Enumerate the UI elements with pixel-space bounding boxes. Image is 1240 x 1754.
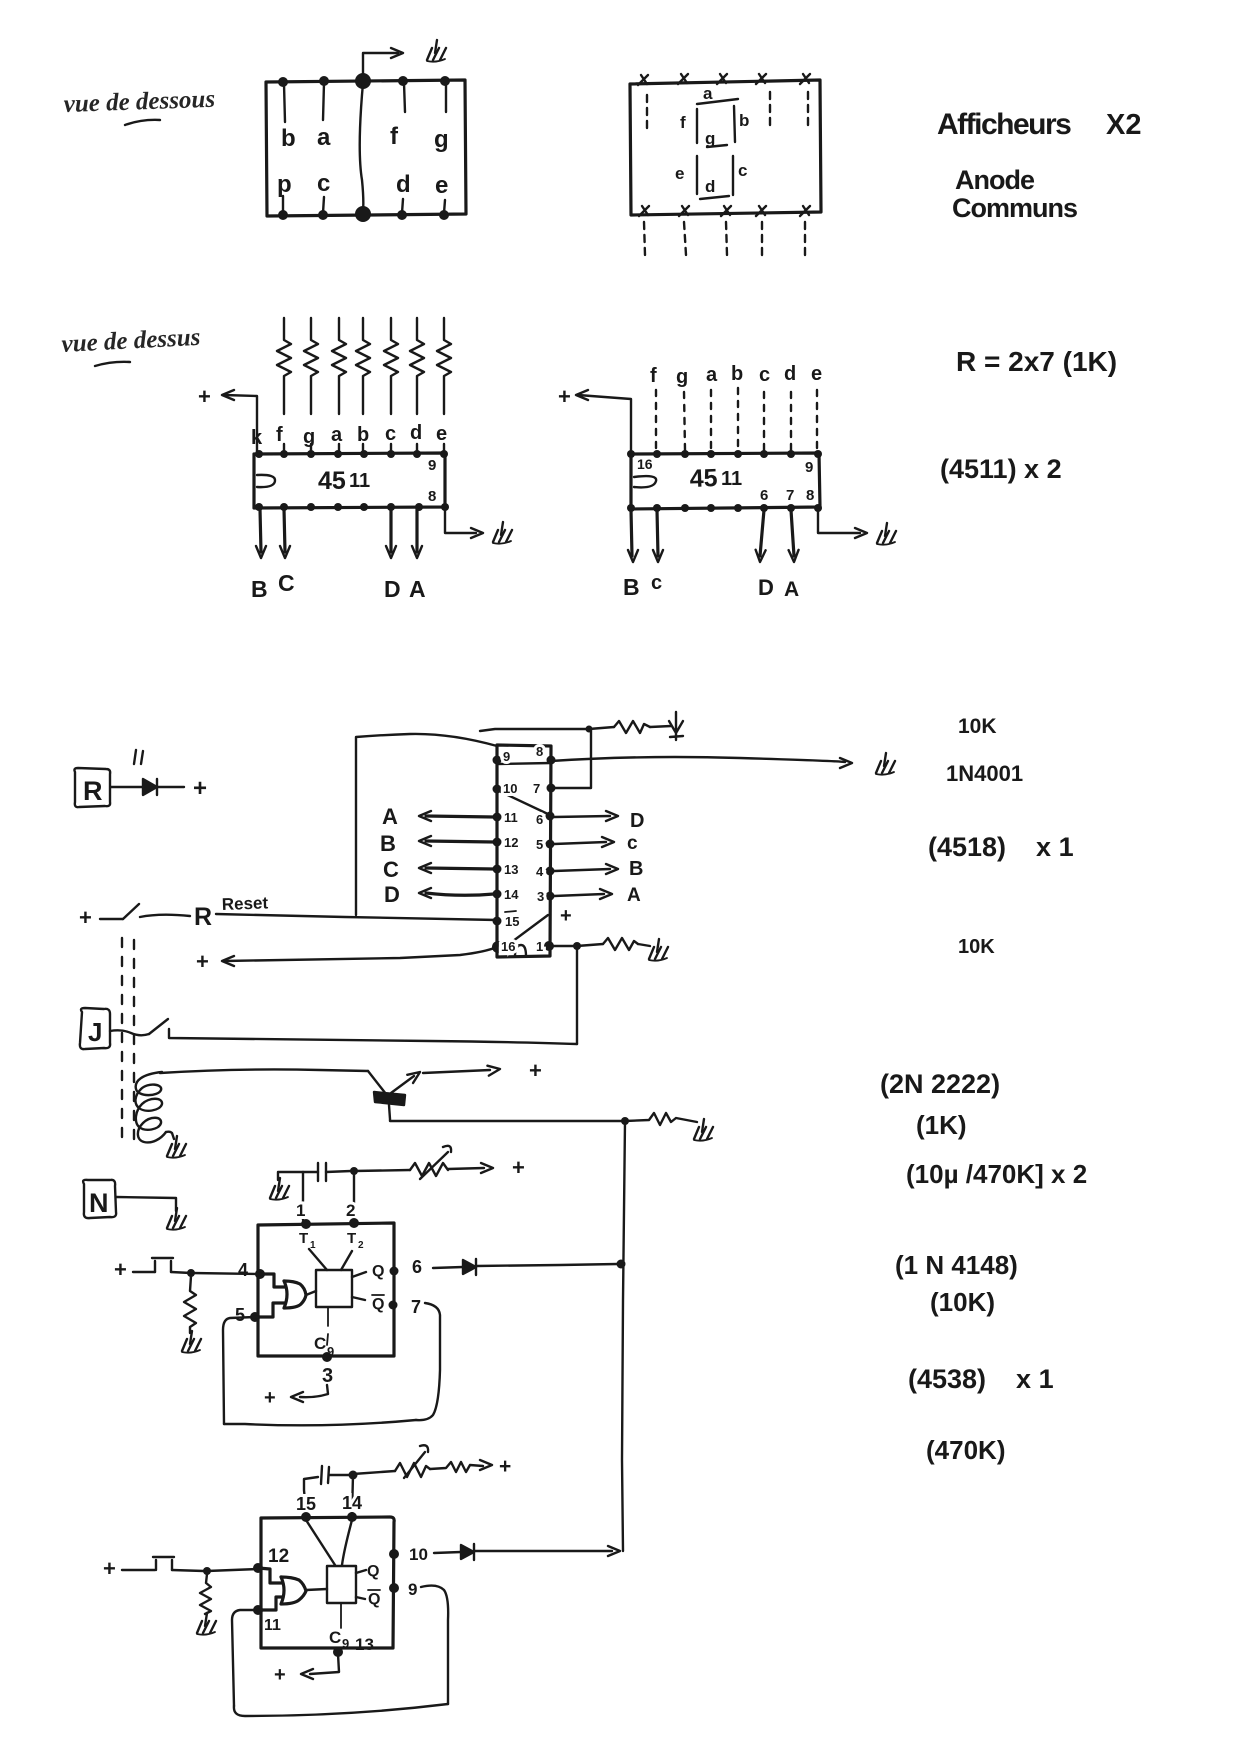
output D arrow <box>389 509 392 552</box>
svg-text:9: 9 <box>503 749 510 764</box>
svg-text:(470K): (470K) <box>926 1435 1005 1465</box>
wire cap to junction <box>329 1474 350 1476</box>
reset wire to switch <box>100 918 123 920</box>
svg-text:+: + <box>558 384 571 409</box>
ground wire of 4511 #2 <box>818 510 860 533</box>
svg-text:N: N <box>89 1188 109 1218</box>
pin g top <box>440 76 450 86</box>
top pin dots <box>255 450 263 458</box>
underline <box>95 362 130 366</box>
svg-text:+: + <box>198 384 211 409</box>
notch <box>634 476 656 487</box>
resistor R c <box>384 318 398 414</box>
svg-text:+: + <box>114 1257 127 1282</box>
svg-text:B: B <box>380 831 396 856</box>
top supply wire to resistor <box>480 729 586 731</box>
loop left side b <box>232 1610 255 1706</box>
notch <box>257 475 275 487</box>
svg-text:a: a <box>331 424 343 446</box>
wire diode to vertical end <box>474 1550 612 1552</box>
inner line below pins 9/8 <box>497 763 551 764</box>
OR gate b <box>281 1577 306 1604</box>
junction <box>586 726 593 733</box>
svg-text:C: C <box>383 857 399 882</box>
pin 9 loop wire <box>421 1586 448 1704</box>
svg-text:2: 2 <box>346 1201 355 1220</box>
svg-text:C: C <box>329 1628 341 1647</box>
T2 lead <box>341 1251 352 1270</box>
capacitor C2 plates <box>321 1466 329 1484</box>
dashed leads below <box>644 222 645 255</box>
pin 12 dot <box>253 1563 263 1573</box>
pin 15 dot <box>301 1512 311 1522</box>
J wire squiggle <box>110 1030 149 1035</box>
internal divider diagonal <box>497 790 550 815</box>
svg-text:15: 15 <box>505 914 519 929</box>
ground (masse) <box>182 1331 201 1353</box>
pin 12 wiring to gate <box>258 1568 282 1583</box>
svg-text:e: e <box>811 363 822 385</box>
svg-text:12: 12 <box>504 835 518 850</box>
J switch arm <box>149 1019 168 1034</box>
svg-text:8: 8 <box>428 488 436 505</box>
dashed linkage lines <box>121 938 123 1139</box>
pin c bottom <box>318 210 328 220</box>
Qbar lead <box>352 1297 365 1300</box>
wire to ground <box>638 944 650 946</box>
svg-text:f: f <box>390 123 399 150</box>
pin 4 dot <box>255 1269 265 1279</box>
svg-text:+: + <box>529 1058 542 1083</box>
pin 11 wiring to gate <box>258 1597 282 1610</box>
pushbutton N.O. <box>152 1258 173 1272</box>
wire to + <box>448 1168 484 1169</box>
svg-text:D: D <box>384 882 400 907</box>
ground (masse) <box>694 1119 713 1141</box>
svg-text:d: d <box>705 177 715 196</box>
display body (vue de dessous) <box>266 80 466 216</box>
svg-text:7: 7 <box>533 781 540 796</box>
wire junction to variable resistor <box>353 1471 395 1474</box>
svg-text:C: C <box>278 570 295 596</box>
cap ground stub <box>278 1172 318 1180</box>
svg-text:c: c <box>385 423 396 445</box>
junction on vertical <box>617 1260 626 1269</box>
wire cap to junction <box>326 1171 351 1172</box>
svg-text:+: + <box>193 775 207 802</box>
junction pin2 top <box>350 1167 358 1175</box>
svg-text:Q: Q <box>367 1563 379 1580</box>
svg-text:(10µ /470K] x 2: (10µ /470K] x 2 <box>906 1159 1087 1189</box>
svg-text:d: d <box>396 171 411 198</box>
pin 4 wiring to gate <box>260 1274 285 1287</box>
ground (masse) N <box>167 1208 186 1230</box>
ground (masse) coil <box>167 1136 186 1158</box>
resistor R e <box>437 318 451 414</box>
T lead 14 <box>342 1520 352 1565</box>
svg-text:10: 10 <box>503 781 517 796</box>
resistor 10K bottom <box>603 938 638 950</box>
variable resistor 470K #1 <box>410 1163 448 1176</box>
common node top <box>355 73 371 89</box>
loop bottom b <box>234 1704 448 1716</box>
wire + to button <box>133 1271 155 1273</box>
wire coil to transistor base <box>160 1069 368 1073</box>
pin 3 wire to + <box>300 1385 328 1397</box>
capacitor C1 plates <box>318 1163 326 1181</box>
bottom pin dots <box>627 504 635 512</box>
pin 7 wire up to supply <box>551 731 591 788</box>
ground (masse) <box>876 753 895 775</box>
pin 3 dot <box>322 1352 332 1362</box>
C pin stub below square <box>340 1604 342 1628</box>
pin d bottom <box>397 210 407 220</box>
svg-text:5: 5 <box>536 837 543 852</box>
svg-text:b: b <box>731 363 743 385</box>
emitter arrow to + <box>391 1076 414 1093</box>
svg-text:Q: Q <box>372 1263 384 1280</box>
pushbutton N.O. b <box>153 1557 174 1570</box>
svg-text:b: b <box>357 424 369 446</box>
right pin dots 8..1 <box>547 756 556 765</box>
svg-text:Q: Q <box>372 1296 384 1313</box>
svg-text:3: 3 <box>322 1365 333 1387</box>
pulldown resistor 10K <box>184 1276 196 1333</box>
svg-text:11: 11 <box>721 468 742 490</box>
svg-text:14: 14 <box>342 1493 362 1513</box>
output C arrow <box>657 510 658 556</box>
wire common to ground arrow <box>363 53 398 79</box>
output A arrow left <box>426 816 494 817</box>
svg-text:+: + <box>79 905 92 930</box>
output C arrow <box>284 509 285 552</box>
svg-text:16: 16 <box>637 456 653 472</box>
svg-text:+: + <box>512 1155 525 1180</box>
svg-text:6: 6 <box>536 812 543 827</box>
svg-text:2: 2 <box>358 1240 364 1251</box>
pin 10 dot <box>389 1549 399 1559</box>
adjustment arrow <box>404 1445 428 1478</box>
wire <box>589 727 614 729</box>
svg-text:b: b <box>739 111 749 130</box>
ground (masse) b <box>197 1613 216 1635</box>
mono block square <box>327 1566 356 1603</box>
underline <box>125 120 160 125</box>
pin e bottom <box>439 210 449 220</box>
svg-text:c: c <box>317 170 330 197</box>
pin 5 wiring to gate <box>255 1303 285 1317</box>
svg-text:d: d <box>410 422 422 444</box>
lead to pin 14 <box>352 1475 353 1514</box>
svg-text:C: C <box>314 1334 326 1353</box>
svg-text:10K: 10K <box>958 715 997 738</box>
wire pin1 junction down to J line <box>576 946 578 1044</box>
svg-text:7: 7 <box>411 1297 421 1317</box>
wire + to button b <box>122 1569 155 1571</box>
left pin dots 9..15 <box>493 756 502 765</box>
ground (masse) <box>877 523 896 545</box>
ground (masse) top <box>427 40 446 62</box>
loop bottom <box>224 1420 416 1425</box>
svg-text:g: g <box>434 126 449 153</box>
pin X marks bottom <box>639 206 649 216</box>
output B arrow left <box>426 841 494 842</box>
svg-text:e: e <box>435 172 448 199</box>
N button box <box>83 1180 116 1218</box>
output c arrow right <box>554 842 606 844</box>
long vertical wire <box>622 1121 625 1551</box>
Q lead <box>352 1272 366 1277</box>
diode D1 <box>143 779 157 795</box>
svg-text:+: + <box>560 905 572 927</box>
svg-text:f: f <box>680 113 686 132</box>
+ arrow from pin 16 <box>222 956 234 966</box>
bottom diagonal and notch <box>497 915 548 953</box>
cap left bracket <box>304 1477 318 1514</box>
svg-text:Q: Q <box>368 1591 380 1608</box>
junction pin1 <box>573 942 581 950</box>
svg-text:9: 9 <box>342 1636 349 1651</box>
IC 4511 #2 body <box>631 453 820 509</box>
output B arrow right <box>554 869 610 871</box>
output C arrow left <box>426 868 494 869</box>
svg-text:Anode: Anode <box>955 165 1035 195</box>
IC 4518 body <box>497 745 551 957</box>
pin stubs into chip <box>284 444 444 452</box>
resistor R a <box>332 318 346 414</box>
svg-text:B: B <box>623 574 640 600</box>
N wire <box>116 1197 176 1211</box>
wire to variable resistor <box>354 1170 410 1171</box>
svg-text:8: 8 <box>806 487 814 504</box>
wire button to junction <box>171 1272 191 1273</box>
bottom pin dots <box>255 503 263 511</box>
svg-text:9: 9 <box>408 1580 417 1599</box>
reset wire to pin 15 <box>216 914 497 920</box>
svg-text:c: c <box>759 364 770 386</box>
svg-text:c: c <box>738 161 747 180</box>
svg-text:14: 14 <box>504 887 519 902</box>
svg-text:8: 8 <box>536 744 543 759</box>
svg-text:d: d <box>784 363 796 385</box>
J button box <box>80 1008 110 1049</box>
svg-text:c: c <box>627 833 638 854</box>
svg-text:12: 12 <box>268 1546 289 1567</box>
svg-text:11: 11 <box>504 810 518 825</box>
reset wire to R <box>140 915 190 917</box>
svg-text:16: 16 <box>501 939 515 954</box>
OR gate <box>284 1281 306 1308</box>
svg-text:T: T <box>299 1230 308 1247</box>
pin 1 dot <box>301 1219 311 1229</box>
svg-text:+: + <box>264 1387 276 1409</box>
svg-text:9: 9 <box>805 459 813 476</box>
svg-text:15: 15 <box>296 1494 316 1514</box>
resistor R b <box>356 318 370 414</box>
ground (masse) <box>649 939 668 961</box>
svg-text:f: f <box>276 424 283 446</box>
diode 1N4001 (to ground arrow) <box>669 712 683 740</box>
svg-text:A: A <box>784 578 799 601</box>
notch bottom <box>515 945 526 956</box>
pin 13 dot <box>333 1647 343 1657</box>
svg-text:D: D <box>630 810 644 832</box>
svg-text:g: g <box>676 366 688 388</box>
wire diode to + <box>157 786 184 788</box>
Q lead <box>356 1570 366 1573</box>
svg-text:B: B <box>251 576 268 602</box>
svg-text:1: 1 <box>310 1240 316 1251</box>
svg-text:11: 11 <box>349 470 370 492</box>
svg-text:(2N 2222): (2N 2222) <box>880 1069 1000 1099</box>
resistor R d <box>410 318 424 414</box>
mono block square <box>316 1270 352 1307</box>
R button box <box>74 768 110 807</box>
IC 4538a body <box>258 1223 394 1356</box>
pin 1 wire <box>550 945 574 947</box>
svg-text:R: R <box>194 903 212 931</box>
ground (masse) <box>493 522 512 544</box>
output D arrow right <box>554 816 610 817</box>
gate output <box>306 1589 327 1590</box>
output A arrow <box>791 510 794 556</box>
lead junction to pin 2 <box>353 1171 355 1220</box>
svg-text:11: 11 <box>264 1617 281 1634</box>
svg-text:10K: 10K <box>958 936 995 958</box>
pin 14 dot <box>347 1512 357 1522</box>
pin 7 dot <box>389 1301 398 1310</box>
wire diode to vertical <box>476 1264 618 1266</box>
output A arrow right <box>554 894 604 896</box>
variable resistor 470K #2 <box>395 1463 430 1477</box>
loop left side <box>223 1317 255 1424</box>
svg-text:10: 10 <box>409 1545 428 1564</box>
svg-text:p: p <box>277 171 292 198</box>
svg-text:(1K): (1K) <box>916 1110 967 1140</box>
Qbar lead <box>356 1597 365 1599</box>
svg-text:9: 9 <box>428 457 436 474</box>
pin 7 loop wire right side <box>416 1303 440 1420</box>
display body (front) <box>630 80 821 215</box>
svg-text:Communs: Communs <box>952 193 1077 223</box>
pin 8 long wire to ground <box>551 757 845 762</box>
pulldown resistor 10K b <box>200 1574 211 1614</box>
svg-text:3: 3 <box>537 889 544 904</box>
common node bottom <box>355 206 371 222</box>
svg-text:+: + <box>499 1455 511 1478</box>
dashed leads f..e <box>655 390 657 450</box>
svg-text:Afficheurs: Afficheurs <box>937 108 1071 141</box>
svg-text:+: + <box>196 949 209 974</box>
svg-text:a: a <box>706 364 718 386</box>
svg-text:f: f <box>650 365 657 387</box>
svg-text:e: e <box>436 423 447 445</box>
adjustment arrow <box>420 1146 451 1179</box>
reset switch arm <box>123 904 139 919</box>
wire R to + <box>111 786 143 788</box>
diode 1N4148 a <box>463 1260 476 1274</box>
svg-text:A: A <box>409 576 426 602</box>
svg-text:1: 1 <box>296 1201 305 1220</box>
junction <box>621 1117 629 1125</box>
wire loop from chip top-left going left and down <box>356 734 497 915</box>
buzzer coil <box>135 1072 166 1142</box>
svg-text:13: 13 <box>355 1635 374 1654</box>
base plate <box>374 1092 405 1105</box>
svg-text:(10K): (10K) <box>930 1287 995 1317</box>
resistor R g <box>304 318 318 414</box>
svg-text:1N4001: 1N4001 <box>946 761 1023 786</box>
svg-text:45: 45 <box>689 464 718 493</box>
svg-text:J: J <box>88 1017 102 1047</box>
pin 11 dot <box>253 1605 263 1615</box>
svg-text:A: A <box>627 885 641 906</box>
top pin dots <box>627 450 635 458</box>
output D arrow <box>760 510 764 556</box>
svg-text:(1 N 4148): (1 N 4148) <box>895 1250 1018 1280</box>
wire to resistor <box>577 944 603 946</box>
svg-text:c: c <box>651 572 662 594</box>
T lead 15 <box>306 1520 335 1565</box>
svg-text:+: + <box>103 1556 116 1581</box>
gate output <box>306 1291 316 1295</box>
svg-text:g: g <box>303 426 315 448</box>
junction pin14 top <box>349 1471 358 1480</box>
svg-text:4: 4 <box>238 1260 248 1280</box>
ground (masse) cap left <box>270 1178 289 1200</box>
dashed stubs inside <box>646 95 648 128</box>
pin 10 wire <box>434 1552 461 1553</box>
svg-text:Reset: Reset <box>221 893 268 914</box>
svg-text:6: 6 <box>412 1257 422 1277</box>
collector wire down and right <box>389 1105 625 1121</box>
lead cap to pin 1 <box>302 1172 304 1220</box>
svg-text:(4511) x 2: (4511) x 2 <box>940 454 1062 484</box>
svg-text:(4538) x 1: (4538) x 1 <box>908 1364 1054 1394</box>
svg-text:vue de dessous: vue de dessous <box>63 86 215 118</box>
wire to diode <box>650 726 671 727</box>
output D arrow left <box>426 893 494 895</box>
resistor 10K top <box>614 721 650 733</box>
wire + small squiggle <box>430 1462 483 1472</box>
pin f top <box>398 76 408 86</box>
pin b top <box>278 77 288 87</box>
coil tail to ground <box>166 1132 174 1139</box>
wire button to junction b <box>172 1570 204 1571</box>
svg-text:4: 4 <box>536 864 544 879</box>
svg-text:e: e <box>675 164 684 183</box>
center common wire <box>360 83 364 212</box>
junction b <box>203 1567 211 1575</box>
svg-text:7: 7 <box>786 487 794 504</box>
svg-text:B: B <box>629 858 643 880</box>
junction <box>187 1269 195 1277</box>
wire junction to pin 4 <box>191 1273 260 1274</box>
diode 1N4148 b <box>461 1545 474 1559</box>
svg-text:X2: X2 <box>1106 109 1141 141</box>
wire junction to pin 12 <box>207 1569 258 1571</box>
T1 lead <box>309 1249 327 1270</box>
svg-text:1: 1 <box>536 939 543 954</box>
ground wire of 4511 #1 <box>445 509 476 533</box>
svg-text:+: + <box>274 1664 286 1686</box>
output A arrow <box>415 509 418 552</box>
resistor R f <box>277 318 291 414</box>
transistor 2N2222: base bar <box>368 1071 386 1094</box>
svg-text:5: 5 <box>235 1305 245 1325</box>
IC 4511 #1 body <box>254 453 445 508</box>
svg-text:A: A <box>382 804 398 829</box>
